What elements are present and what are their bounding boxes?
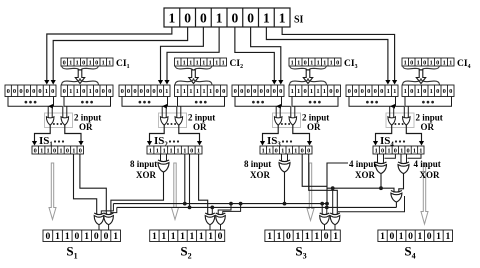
wire HL drop to pair3 <box>332 188 334 214</box>
wires into OR gates 2 <box>161 106 163 118</box>
brace over R4R <box>403 78 440 84</box>
svg-text:OR: OR <box>421 122 435 132</box>
box stars under R1R <box>64 97 111 107</box>
arrow into R2L bit8 <box>164 80 169 85</box>
stars R1L <box>25 101 37 104</box>
arrow left on box R1L <box>48 104 53 109</box>
svg-text:XOR: XOR <box>355 170 376 180</box>
brace over R3R <box>290 78 327 84</box>
wire IS2 bit7 tap to busB <box>189 154 191 207</box>
wire U4b out <box>399 174 404 193</box>
box stars under R1L <box>8 97 54 107</box>
xor gate pair section3 right <box>330 213 340 225</box>
wire bus hook to pair2 right <box>223 204 241 214</box>
OR gate 1b <box>61 117 69 125</box>
arrow into IS1 left <box>32 141 37 146</box>
stars OR block 1 <box>53 123 62 125</box>
shift-in register SI <box>164 8 290 27</box>
wire IS4 to U4a in1 <box>377 154 379 163</box>
stars R3L <box>252 101 264 104</box>
xor gate U4b (4-input) <box>398 162 409 174</box>
stars OR block 3 <box>281 123 290 125</box>
gray arrow section1 copy <box>49 163 56 220</box>
wire IS2 to U2 in1 <box>160 154 162 161</box>
wire pair2a out <box>209 225 211 230</box>
hollow arrow CI3 down <box>303 70 312 84</box>
wire U2 out to pair1 <box>111 172 164 214</box>
svg-text:XOR: XOR <box>420 170 441 180</box>
arrow into R4L bit7 <box>385 80 390 85</box>
register R2L <box>119 85 170 97</box>
stars IS3 <box>282 140 292 142</box>
box stars under R3R <box>292 97 338 107</box>
register R1R <box>61 85 113 97</box>
gray box OR block 2 <box>159 113 187 128</box>
constant register CI2 <box>175 58 227 66</box>
hollow arrow CI4 down <box>416 70 425 84</box>
wire SI bit5 to R3L <box>235 27 274 81</box>
stars R2R <box>195 101 207 104</box>
stars OR block 2 <box>167 123 176 125</box>
gray box OR block 3 <box>273 113 301 128</box>
arrow into IS4 left <box>373 141 378 146</box>
arrow into R3L bit7 <box>272 80 277 85</box>
wire OR 4 in4 <box>407 106 409 118</box>
wire IS2 bit6 tap to busA <box>184 154 186 204</box>
svg-text:OR: OR <box>79 122 93 132</box>
wire U3 out to busA <box>284 172 286 204</box>
arrow into R1L bit7 <box>44 80 49 85</box>
arrow into IS2 right <box>197 141 202 146</box>
wire box R4L bottom extension <box>396 105 405 107</box>
brace under CI3 <box>290 66 327 72</box>
wire IS3 to U3 in1 <box>281 154 283 161</box>
brace under CI2 <box>175 66 212 72</box>
wire SI bit7 to R4L <box>266 27 388 81</box>
svg-text:2 input: 2 input <box>416 113 443 123</box>
junction dot busB pair3 <box>325 206 329 210</box>
svg-text:4 input: 4 input <box>349 159 376 169</box>
wire box R1L bottom extension <box>54 105 63 107</box>
constant register CI1 <box>61 58 113 66</box>
svg-text:2 input: 2 input <box>74 113 101 123</box>
wire corner down to busA end <box>327 163 348 204</box>
arrow into R3L bit8 <box>278 80 283 85</box>
wire pair3b out <box>334 225 336 230</box>
arrow into IS3 right <box>307 141 312 146</box>
wire IS2 to U2 in2 <box>166 154 168 161</box>
wire OR1b out to IS1 <box>65 125 81 142</box>
arrow into R2L bit7 <box>158 80 163 85</box>
wire OR 1 in4 <box>66 106 68 118</box>
box around U4c <box>338 196 405 212</box>
stars R4L <box>366 101 378 104</box>
wire OR 2 in4 <box>180 106 182 118</box>
wire OR3b out to IS3 <box>293 125 310 142</box>
junction dot HL-333 <box>331 186 335 190</box>
junction dots bus section2 <box>229 202 233 206</box>
bus line A <box>113 203 327 205</box>
junction dot IS2b6-busA <box>183 202 187 206</box>
wire U4a out <box>380 174 382 189</box>
wire SI bit3 to R2L <box>161 27 204 81</box>
wire OR 2 in2 <box>165 106 167 118</box>
xor gate U4a (4-input) <box>376 162 387 174</box>
bus B left end <box>111 207 117 212</box>
wire busB drop to pair3 <box>326 207 328 214</box>
brace over R2R <box>175 78 212 84</box>
wire bus hook to pair2 left <box>218 204 231 214</box>
wire IS4 b8 hook to U4b <box>408 154 422 158</box>
box stars under R3L <box>235 97 282 107</box>
junction dot busA pair3 <box>320 202 324 206</box>
wire IS1 bit8 tap <box>80 154 106 214</box>
box stars under R4L <box>349 97 396 107</box>
brace under CI1 <box>62 66 99 72</box>
gray arrow section2 copy <box>172 163 179 220</box>
wire OR3a out to IS3 <box>263 125 279 142</box>
brace over R1R <box>62 78 99 84</box>
wire pair1a out <box>98 225 100 230</box>
wire OR1a out to IS1 <box>35 125 51 142</box>
wire busB drop to pair2 <box>211 207 213 214</box>
box stars under R2R <box>178 97 225 107</box>
wire OR 1 in3 <box>62 106 64 118</box>
xor gate pair section1 right <box>104 213 114 225</box>
svg-text:4 input: 4 input <box>414 159 441 169</box>
gray box OR block 4 <box>386 113 414 128</box>
OR gate 4b <box>403 117 411 125</box>
register IS2 <box>147 146 202 154</box>
register R2R <box>175 85 228 97</box>
wire SI bit4 to R2L <box>167 27 219 81</box>
wire OR2a out to IS2 <box>150 125 165 142</box>
hollow arrow CI1 down <box>75 70 84 84</box>
arrow left on box R2L <box>162 104 167 109</box>
wires into OR gates 1 <box>47 106 49 118</box>
arrow left on box R3L <box>276 104 281 109</box>
svg-text:2 input: 2 input <box>302 113 329 123</box>
bus A left hook to pair1 <box>101 204 113 214</box>
wire IS3 bit8 tap <box>309 154 338 214</box>
junction dot U4a-HL <box>379 186 383 190</box>
output register S2 <box>150 230 225 242</box>
bus line B <box>117 206 397 208</box>
wire OR 3 in2 <box>279 106 281 118</box>
junction dot busA end <box>325 202 329 206</box>
wire box R2L bottom extension <box>168 105 177 107</box>
wire IS4 to U4b in2 <box>406 154 408 163</box>
OR gate 4a <box>388 117 396 125</box>
wire OR4b out to IS4 <box>406 125 421 142</box>
wire OR4a out to IS4 <box>376 125 392 142</box>
wire box R3L bottom extension <box>282 105 291 107</box>
arrow into IS4 right <box>419 141 424 146</box>
wire IS3 bit7 tap <box>302 154 327 186</box>
wire OR 4 in2 <box>393 106 395 118</box>
stars IS2 <box>169 140 179 142</box>
xor gate pair section2 left <box>205 213 215 225</box>
stars R3R <box>309 101 321 104</box>
register IS4 <box>373 146 424 154</box>
svg-text:8 input: 8 input <box>130 159 157 169</box>
constant register CI4 <box>402 58 454 66</box>
stars OR block 4 <box>394 123 403 125</box>
junction dot U3-busA <box>283 202 287 206</box>
arrow into IS3 left <box>260 141 265 146</box>
wire OR 3 in4 <box>294 106 296 118</box>
gray arrow section4 copy <box>421 163 428 224</box>
wires into OR gates 3 <box>275 106 277 118</box>
wire IS3 to U3 in2 <box>287 154 289 161</box>
wire SI bit8 to R4L <box>282 27 394 81</box>
svg-text:SI: SI <box>294 15 304 26</box>
box stars under R2L <box>122 97 168 107</box>
arrow into IS1 right <box>78 141 83 146</box>
wire pair3a out <box>324 225 326 230</box>
wire OR 3 in3 <box>290 106 292 118</box>
xor gate pair section3 left <box>320 213 330 225</box>
wire IS2 bit8 tap <box>199 154 208 214</box>
box stars under R4R <box>405 97 452 107</box>
wire busA drop to pair3 <box>321 204 323 214</box>
OR gate 3a <box>274 117 282 125</box>
register R3L <box>232 85 284 97</box>
wire OR 1 in2 <box>51 106 53 118</box>
register IS3 <box>260 146 312 154</box>
wire IS4 to U4a in2 <box>383 154 385 163</box>
wire SI bit6 to R3L <box>251 27 281 81</box>
svg-text:8 input: 8 input <box>244 159 271 169</box>
stars IS4 <box>395 140 405 142</box>
stars R2L <box>139 101 151 104</box>
OR gate 3b <box>289 117 297 125</box>
arrow into IS2 left <box>147 141 152 146</box>
brace under CI4 <box>403 66 440 72</box>
wire IS4 b4 hook to U4a <box>385 154 396 158</box>
register R4L <box>346 85 398 97</box>
xor gate U4c (combiner) <box>391 191 402 203</box>
junction dot busB-pair2 <box>210 206 214 210</box>
arrow left on box R4L <box>390 104 395 109</box>
gray arrow section3 copy <box>307 163 314 221</box>
gray box OR block 1 <box>45 113 73 128</box>
hollow arrow CI2 down <box>189 70 198 84</box>
wire SI bit1 to R1L <box>47 27 172 81</box>
wire U4c out to busB <box>395 202 397 207</box>
register IS1 <box>32 146 84 154</box>
wire OR2b out to IS2 <box>179 125 200 142</box>
xor gate U3 (8-input) <box>279 160 290 172</box>
constant register CI3 <box>289 58 341 66</box>
register R1L <box>5 85 56 97</box>
OR gate 2b <box>175 117 183 125</box>
output register S3 <box>265 230 340 242</box>
stars R4R <box>422 101 434 104</box>
wire OR 2 in3 <box>176 106 178 118</box>
arrow into R1L bit8 <box>51 80 56 85</box>
junction dot IS2b7-busB <box>188 206 192 210</box>
svg-text:2 input: 2 input <box>188 113 215 123</box>
stars IS1 <box>54 140 64 142</box>
svg-text:OR: OR <box>193 122 207 132</box>
OR gate 1a <box>46 117 54 125</box>
output register S1 <box>43 230 121 242</box>
wire pair2b out <box>220 225 222 230</box>
wire SI bit2 to R1L <box>53 27 187 81</box>
OR gate 2a <box>160 117 168 125</box>
output register S4 <box>378 230 453 242</box>
xor gate pair section2 right <box>216 213 226 225</box>
wire horizontal y188 <box>327 188 394 192</box>
svg-text:XOR: XOR <box>250 170 271 180</box>
register R3R <box>289 85 341 97</box>
wires into OR gates 4 <box>389 106 391 118</box>
svg-text:XOR: XOR <box>136 170 157 180</box>
xor gate pair section1 left <box>94 213 104 225</box>
wire OR 4 in3 <box>403 106 405 118</box>
wire IS4 to U4b in1 <box>400 154 402 163</box>
stars R1R <box>81 101 93 104</box>
xor gate U2 (8-input) <box>158 160 169 172</box>
wire IS1 bit7 tap <box>74 154 97 214</box>
register R4R <box>402 85 454 97</box>
wire pair1b out <box>108 225 110 230</box>
arrow into R4L bit8 <box>392 80 397 85</box>
svg-text:OR: OR <box>307 122 321 132</box>
